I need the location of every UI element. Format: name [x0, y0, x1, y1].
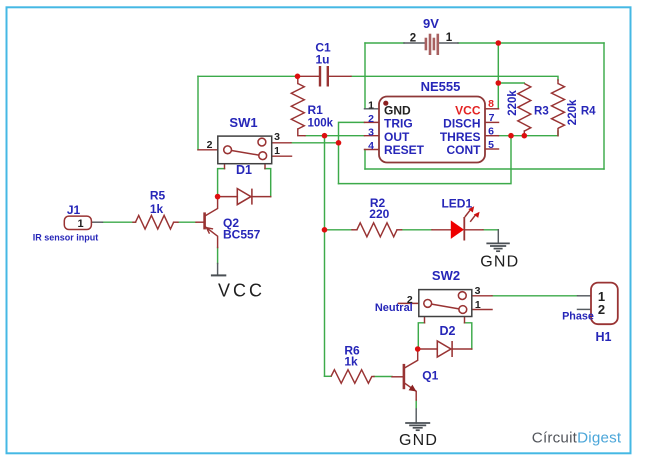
wire R2 to LED: [402, 229, 432, 231]
svg-text:1: 1: [446, 32, 453, 44]
SW1 pin2 stub: [198, 149, 218, 151]
pin 5 stub: [485, 148, 499, 150]
C1 lead right: [329, 75, 351, 77]
Q1 emitter lead: [405, 383, 416, 400]
svg-text:LED1: LED1: [441, 197, 472, 211]
transistor Q2 BC557: [205, 212, 214, 233]
resistor R3 220k vertical: [518, 84, 531, 132]
wire battery left vertical to pin1: [364, 43, 366, 109]
wire OUT long vertical: [324, 136, 326, 377]
R4 top lead: [557, 80, 559, 84]
svg-text:R3: R3: [534, 105, 549, 117]
wire C1 rail left: [198, 75, 298, 77]
node D2 Q1 junction: [415, 346, 421, 352]
Q2 emitter lead: [205, 227, 218, 248]
svg-text:D2: D2: [440, 324, 456, 338]
node VCC rail junction: [496, 80, 502, 86]
ground symbol near LED: [486, 243, 509, 251]
wire TRIG link: [339, 122, 365, 183]
svg-text:2: 2: [410, 33, 416, 45]
wire VCC junction to R3 top: [498, 82, 524, 84]
wire node to R2: [325, 229, 353, 231]
node D1 Q2 junction: [215, 194, 221, 200]
SW2 pin2 stub: [399, 302, 420, 304]
svg-text:1: 1: [77, 218, 83, 230]
wire bottom horizontal to reset: [365, 168, 604, 170]
wire battery right horizontal: [458, 42, 604, 44]
battery lead left: [404, 42, 425, 44]
svg-text:SW2: SW2: [432, 268, 460, 283]
wire OUT to R6: [325, 375, 332, 377]
wire VCC vertical battery to pin8: [497, 43, 499, 109]
svg-text:220k: 220k: [507, 90, 519, 116]
SW1 bottom stub left: [224, 164, 226, 169]
R5 lead right: [174, 221, 178, 223]
svg-text:2: 2: [598, 302, 605, 317]
resistor R4 220k vertical: [552, 84, 565, 129]
R3 bottom lead: [523, 131, 525, 136]
pin 4 stub: [365, 149, 380, 151]
LED gnd stem: [497, 230, 499, 243]
svg-text:1k: 1k: [344, 355, 358, 369]
J1 stub: [91, 221, 102, 223]
svg-text:BC557: BC557: [223, 228, 261, 242]
wire Q2 emitter segment: [217, 248, 219, 264]
wire R1 bottom to pin3: [305, 135, 365, 137]
svg-text:1: 1: [475, 299, 481, 311]
D1 cathode lead: [252, 196, 271, 198]
node battery top junction: [496, 40, 502, 46]
svg-text:IR sensor input: IR sensor input: [33, 233, 99, 243]
diode D2: [437, 341, 452, 357]
svg-text:Phase: Phase: [562, 310, 594, 322]
svg-text:9V: 9V: [423, 16, 439, 31]
connector H1: [591, 283, 618, 325]
Q2 vcc stem: [217, 264, 219, 276]
svg-text:1k: 1k: [150, 202, 164, 216]
svg-text:SW1: SW1: [229, 115, 257, 130]
svg-text:3: 3: [475, 285, 481, 297]
wire SW2 pin3 to H1: [492, 295, 578, 297]
wire battery left horizontal: [365, 42, 404, 44]
C1 lead left: [298, 75, 319, 77]
wire SW1 left loop: [218, 169, 225, 197]
switch SW1 body: [218, 136, 272, 164]
svg-text:7: 7: [489, 112, 495, 124]
ground symbol near Q1: [405, 423, 430, 430]
R4 bottom lead: [557, 129, 559, 136]
svg-text:1: 1: [274, 145, 280, 157]
SW1 bottom stub right: [264, 164, 266, 169]
R1 top lead: [297, 76, 299, 83]
svg-text:R1: R1: [308, 103, 324, 117]
pin 8 stub: [485, 108, 499, 110]
node THRES down junction: [508, 133, 514, 139]
Q1 collector lead: [405, 349, 418, 368]
svg-text:CONT: CONT: [447, 143, 482, 157]
svg-text:GND: GND: [480, 253, 519, 270]
pin 1 stub: [365, 108, 380, 110]
wire SW1 pin3 rail: [291, 142, 339, 144]
svg-text:GND: GND: [384, 104, 411, 118]
H1 pin2 stub: [578, 308, 592, 310]
resistor R1 100k vertical: [291, 84, 304, 130]
switch SW2 body: [419, 290, 472, 317]
svg-text:4: 4: [368, 140, 374, 152]
transistor Q1: [404, 364, 417, 392]
SW2 pin3 stub: [472, 295, 492, 297]
svg-text:Q1: Q1: [422, 369, 438, 383]
svg-text:H1: H1: [596, 330, 612, 344]
svg-text:R4: R4: [581, 105, 596, 117]
R5 lead left: [133, 221, 136, 223]
svg-text:100k: 100k: [308, 117, 334, 129]
node TRIG SW1 junction: [336, 140, 342, 146]
svg-text:1u: 1u: [315, 53, 329, 67]
svg-text:2: 2: [407, 294, 413, 306]
wire THRES rail: [499, 131, 559, 136]
battery BAT 9V plates: [426, 34, 438, 55]
resistor R5 1k horizontal: [136, 215, 174, 229]
pin 3 stub: [365, 135, 380, 137]
wire Q1 emitter segment: [415, 400, 417, 409]
svg-text:NE555: NE555: [421, 79, 461, 94]
svg-text:R5: R5: [150, 189, 166, 203]
svg-text:GND: GND: [399, 432, 438, 449]
svg-text:D1: D1: [236, 163, 252, 177]
svg-text:3: 3: [274, 131, 280, 143]
D2 cathode lead: [452, 348, 472, 350]
LED cathode lead: [465, 229, 484, 231]
LED LED1: [451, 206, 480, 240]
SW1 pin1 stub: [272, 155, 292, 157]
op-amp U1 NE555 body: [379, 97, 485, 163]
wire TRIG to THRES bottom path: [339, 136, 512, 184]
svg-text:8: 8: [488, 98, 494, 110]
svg-text:5: 5: [488, 139, 494, 151]
battery lead right: [439, 42, 458, 44]
resistor R2 220 horizontal: [357, 223, 397, 237]
wire R6 to Q1 base: [374, 376, 392, 378]
SW2 bottom stub left: [424, 317, 426, 323]
pin 7 stub: [485, 121, 499, 123]
wire SW2 right loop: [465, 323, 472, 349]
R2 lead right: [397, 229, 402, 231]
wire right side vertical: [603, 43, 605, 169]
svg-text:OUT: OUT: [384, 130, 410, 144]
svg-text:3: 3: [368, 127, 374, 139]
vcc bar symbol: [211, 274, 226, 276]
node OUT R2 junction: [322, 227, 328, 233]
capacitor C1 plates: [320, 66, 328, 87]
svg-text:DISCH: DISCH: [443, 117, 480, 131]
node THRES R3 junction: [522, 133, 528, 139]
Q2 collector lead: [205, 197, 218, 216]
Q1 gnd stem: [415, 409, 417, 423]
diode D1: [237, 189, 252, 205]
node C1 R1 junction: [295, 74, 301, 80]
svg-text:THRES: THRES: [440, 130, 481, 144]
svg-text:6: 6: [488, 125, 494, 137]
svg-text:TRIG: TRIG: [384, 117, 413, 131]
wire left vertical to SW1 pin2: [197, 76, 199, 150]
wire C1 rail right to R4 top: [351, 76, 558, 80]
svg-text:220k: 220k: [567, 99, 579, 125]
R1 bottom lead: [298, 129, 305, 136]
svg-text:2: 2: [368, 113, 374, 125]
svg-text:RESET: RESET: [384, 143, 425, 157]
resistor R6 1k horizontal: [331, 370, 372, 384]
R6 lead right: [372, 376, 374, 378]
Q2 base stub: [196, 221, 204, 223]
SW2 bottom stub right: [464, 317, 466, 323]
svg-text:220: 220: [369, 207, 389, 221]
svg-text:1: 1: [368, 99, 374, 111]
pin 2 stub: [365, 121, 380, 123]
wire SW1 right loop: [265, 169, 271, 197]
H1 pin1 stub: [578, 295, 592, 297]
SW2 pin1 stub: [472, 309, 492, 311]
svg-text:VCC: VCC: [455, 104, 481, 118]
D1 anode lead: [218, 196, 238, 198]
wire R5 to Q2 base: [178, 221, 196, 223]
wire reset vertical: [364, 150, 366, 170]
LED anode lead: [432, 229, 451, 231]
wire LED to gnd elbow: [483, 229, 498, 231]
svg-text:VCC: VCC: [218, 281, 265, 301]
wire SW2 left loop: [418, 323, 424, 349]
R2 lead left: [352, 229, 357, 231]
Q1 base stub: [392, 376, 403, 378]
node OUT R1 junction: [322, 133, 328, 139]
D2 anode lead: [418, 348, 438, 350]
connector J1: [64, 216, 91, 229]
wire J1 to R5: [103, 221, 136, 223]
pin 6 stub: [485, 135, 499, 137]
SW1 pin3 stub: [272, 142, 291, 144]
svg-text:2: 2: [207, 139, 213, 151]
svg-text:J1: J1: [67, 203, 81, 217]
svg-text:CírcuitDigest: CírcuitDigest: [532, 430, 622, 447]
